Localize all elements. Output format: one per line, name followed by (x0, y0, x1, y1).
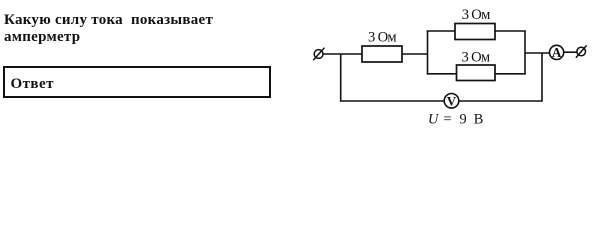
answer box (3, 66, 271, 98)
ammeter A (550, 45, 564, 60)
wire: parallel block top branch (427, 30, 526, 32)
resistor R3 (bottom parallel) (457, 65, 496, 81)
answer label (11, 77, 54, 92)
wire: R1 to parallel block (402, 53, 428, 55)
resistor R1 (362, 46, 402, 62)
voltmeter V (444, 93, 459, 108)
svg-text:A: A (552, 45, 562, 60)
wire: ammeter to right terminal (564, 51, 578, 53)
svg-text:3 Ом: 3 Ом (462, 7, 490, 23)
wire: parallel block to ammeter (525, 52, 550, 54)
question text (4, 12, 213, 45)
svg-text:3 Ом: 3 Ом (462, 49, 490, 65)
wire: parallel block left vertical (427, 31, 429, 75)
svg-text:U=9В: U=9В (428, 112, 483, 128)
wire: junction vertical down-left (340, 54, 342, 102)
wire: left terminal to R1 (323, 53, 362, 55)
svg-text:V: V (447, 93, 457, 108)
terminal left (313, 48, 324, 61)
wire: bottom branch through voltmeter (340, 100, 543, 102)
terminal right (576, 45, 587, 57)
resistor R2 (top parallel) (455, 24, 495, 40)
wire: parallel block right vertical (524, 31, 526, 75)
wire: junction vertical down-right (541, 53, 543, 101)
wire: parallel block bottom branch (427, 73, 526, 75)
svg-text:3 Ом: 3 Ом (368, 29, 396, 45)
